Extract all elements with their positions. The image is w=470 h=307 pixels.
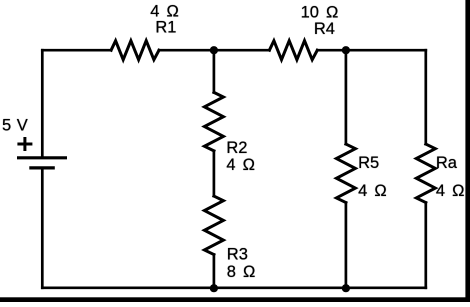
svg-text:R4: R4: [314, 20, 335, 38]
wire bottom: [42, 286, 426, 289]
resistor R2: [204, 92, 223, 150]
svg-text:10 Ω: 10 Ω: [301, 4, 339, 22]
wire top-middle segment: [159, 49, 269, 52]
wire top-left segment: [42, 49, 111, 52]
wire left upper: [41, 50, 44, 156]
resistor R4: [269, 41, 317, 60]
svg-text:8 Ω: 8 Ω: [227, 263, 256, 281]
wire top-right segment: [317, 49, 426, 52]
battery V1 positive plate: [17, 156, 67, 159]
battery plus sign: [17, 137, 32, 151]
svg-text:Ra: Ra: [436, 154, 458, 172]
image right border: [465, 0, 470, 302]
svg-text:R2: R2: [226, 139, 247, 157]
svg-text:4 Ω: 4 Ω: [226, 156, 255, 174]
svg-text:R1: R1: [155, 18, 176, 36]
wire middle branch upper: [213, 50, 216, 92]
svg-text:R5: R5: [358, 154, 379, 172]
wire middle branch between R2 and R3: [213, 151, 216, 196]
junction node bottom-middle: [210, 284, 218, 292]
image bottom border: [0, 297, 470, 302]
wire R5 branch upper: [345, 50, 348, 144]
junction node top-middle: [210, 46, 218, 54]
svg-text:4 Ω: 4 Ω: [358, 182, 387, 200]
junction node bottom-right: [342, 284, 350, 292]
junction node top-right of R4: [342, 46, 350, 54]
resistor R1: [111, 41, 159, 60]
svg-text:4 Ω: 4 Ω: [436, 182, 465, 200]
resistor R5: [336, 144, 355, 202]
battery V1 negative plate: [29, 166, 55, 169]
wire Ra branch lower: [424, 203, 427, 288]
svg-text:R3: R3: [227, 246, 248, 264]
wire R5 branch lower: [345, 203, 348, 288]
wire left lower: [41, 170, 44, 288]
wire middle branch lower: [213, 255, 216, 288]
resistor Ra: [416, 144, 435, 202]
resistor R3: [204, 196, 223, 254]
wire Ra branch upper (right side): [424, 50, 427, 144]
svg-text:5 V: 5 V: [2, 116, 28, 134]
